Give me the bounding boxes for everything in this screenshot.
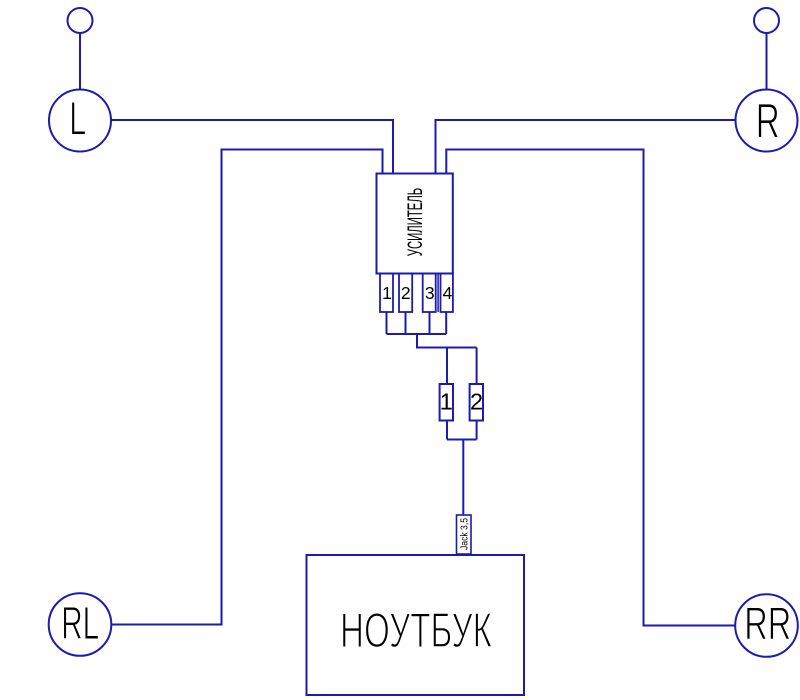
- wire: connector 2 down: [476, 421, 478, 440]
- svg-text:1: 1: [440, 389, 453, 415]
- svg-text:1: 1: [382, 283, 392, 303]
- wire: connectors bus horizontal: [447, 439, 477, 441]
- speaker RL circle: [49, 593, 112, 656]
- pin 2 box: [399, 274, 412, 313]
- wire: connector 1 down: [446, 421, 448, 440]
- wire: pin 3 down: [429, 312, 431, 334]
- pin 1 box: [380, 274, 393, 313]
- wire: speaker RL to amplifier top: [112, 150, 383, 625]
- svg-text:Jack 3,5: Jack 3,5: [459, 518, 471, 550]
- svg-text:2: 2: [470, 389, 483, 415]
- laptop box: [307, 555, 525, 695]
- wire stub between pin 3 and pin 4: [437, 274, 439, 313]
- speaker RR circle: [735, 594, 798, 657]
- wire: down to connector 1: [446, 348, 448, 385]
- speaker R circle: [736, 90, 798, 152]
- wire: speaker R to amplifier top: [436, 120, 736, 174]
- svg-text:RR: RR: [744, 598, 791, 650]
- svg-text:НОУТБУК: НОУТБУК: [340, 604, 492, 658]
- svg-text:УСИЛИТЕЛЬ: УСИЛИТЕЛЬ: [404, 188, 427, 257]
- svg-text:3: 3: [425, 283, 435, 303]
- speaker L circle: [49, 90, 111, 152]
- wire: speaker RR to amplifier top: [446, 150, 735, 626]
- amplifier box U1: [377, 174, 453, 274]
- pin 3 box: [423, 274, 436, 313]
- svg-text:2: 2: [401, 283, 411, 303]
- wire: pin 2 down: [405, 312, 407, 334]
- wire: speaker L to amplifier top: [111, 120, 393, 174]
- terminal circle above L: [68, 8, 93, 33]
- wire: bus center drop: [417, 334, 477, 348]
- pin 4 box: [441, 274, 453, 313]
- jack 3.5 label box: [457, 515, 472, 554]
- wire: bus to jack: [462, 440, 464, 516]
- wire: pins bus horizontal: [387, 333, 447, 335]
- wire: stub R terminal to speaker R: [766, 33, 768, 90]
- wire: stub L terminal to speaker L: [79, 33, 81, 90]
- wire: down to connector 2: [476, 348, 478, 385]
- svg-text:R: R: [756, 95, 780, 149]
- connector 2 box: [470, 384, 483, 421]
- terminal circle above R: [754, 8, 779, 33]
- wire: pin 1 down: [386, 312, 388, 334]
- svg-text:RL: RL: [61, 597, 99, 649]
- wire: pin 4 down: [445, 312, 447, 334]
- connector 1 box: [440, 384, 453, 421]
- svg-text:4: 4: [443, 283, 453, 303]
- svg-text:L: L: [69, 92, 86, 145]
